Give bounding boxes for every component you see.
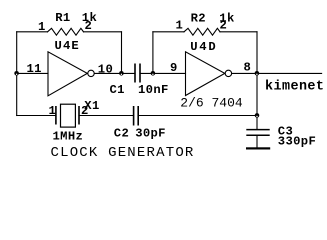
crystal X1: [56, 104, 79, 127]
svg-text:2: 2: [85, 19, 93, 33]
resistor R2: [184, 28, 220, 35]
wire right rail vertical: [256, 32, 258, 116]
svg-text:2: 2: [81, 104, 89, 118]
wire R1 loop top-right segment: [84, 31, 122, 33]
svg-text:R2: R2: [191, 11, 206, 25]
svg-text:kimenet: kimenet: [265, 80, 324, 95]
wire U4E output pin 10 to node A and C1: [94, 72, 135, 74]
ground: [246, 147, 270, 149]
resistor R1: [48, 28, 84, 35]
capacitor C3 plates: [246, 130, 269, 136]
junction node at U4E input pin 11: [14, 71, 19, 76]
wire node to C3 top: [256, 116, 258, 130]
svg-text:C2: C2: [114, 127, 129, 141]
svg-text:CLOCK GENERATOR: CLOCK GENERATOR: [51, 145, 195, 161]
wire C2 to right rail node: [138, 115, 257, 117]
wire R1 right vertical drop to node A: [121, 32, 123, 74]
wire C1 to U4D input pin 9 through node B: [140, 72, 186, 74]
svg-text:1: 1: [38, 20, 46, 34]
wire R2 loop top-right segment: [220, 31, 257, 33]
svg-text:10nF: 10nF: [138, 83, 169, 97]
junction node at U4D output pin 8: [255, 71, 260, 76]
wire left rail to crystal X1 pin 1: [17, 115, 56, 117]
wire R2 loop top-left segment: [153, 31, 184, 33]
svg-text:10: 10: [98, 62, 113, 76]
svg-text:2: 2: [220, 18, 228, 32]
wire C3 bottom to ground: [256, 135, 258, 147]
svg-text:R1: R1: [55, 11, 70, 25]
wire R1 loop top-left segment: [17, 31, 48, 33]
svg-text:30pF: 30pF: [135, 127, 166, 141]
svg-text:1: 1: [49, 104, 57, 118]
svg-text:2/6 7404: 2/6 7404: [180, 96, 243, 111]
svg-text:C1: C1: [110, 83, 125, 97]
capacitor C2 plates: [134, 106, 139, 126]
svg-text:U4D: U4D: [190, 40, 217, 54]
inverter gate U4E (7404): [48, 52, 94, 96]
junction node B at C1 right: [151, 71, 156, 76]
junction node at C2 / C3: [255, 113, 260, 118]
wire crystal X1 pin 2 to C2: [79, 115, 134, 117]
svg-text:1: 1: [176, 18, 184, 32]
svg-text:11: 11: [27, 62, 42, 76]
svg-text:8: 8: [244, 60, 252, 74]
capacitor C1 plates: [135, 64, 140, 83]
junction node A at C1 left: [119, 71, 124, 76]
wire U4D output pin 8 to kimenet: [232, 72, 322, 74]
svg-text:9: 9: [170, 61, 178, 75]
wire U4E input pin 11: [17, 72, 48, 74]
svg-text:330pF: 330pF: [278, 135, 316, 149]
svg-text:1MHz: 1MHz: [53, 129, 84, 143]
wire node B vertical up to R2: [152, 32, 154, 74]
inverter gate U4D (7404): [186, 52, 232, 96]
svg-text:U4E: U4E: [55, 39, 80, 53]
wire left rail vertical: [16, 32, 18, 116]
